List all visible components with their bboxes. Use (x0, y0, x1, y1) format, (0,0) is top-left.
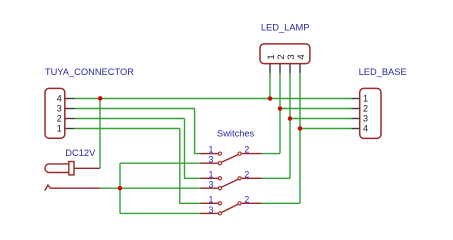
svg-text:TUYA_CONNECTOR: TUYA_CONNECTOR (45, 67, 134, 77)
svg-text:1: 1 (208, 169, 213, 179)
svg-text:LED_LAMP: LED_LAMP (261, 23, 310, 33)
svg-text:2: 2 (57, 113, 62, 123)
svg-text:3: 3 (208, 205, 213, 215)
svg-text:3: 3 (208, 155, 213, 165)
svg-text:3: 3 (363, 113, 368, 123)
svg-text:2: 2 (363, 103, 368, 113)
svg-text:LED_BASE: LED_BASE (359, 67, 407, 77)
svg-text:Switches: Switches (217, 129, 255, 139)
svg-text:1: 1 (208, 145, 213, 155)
svg-text:1: 1 (57, 123, 62, 133)
svg-text:4: 4 (363, 123, 368, 133)
svg-text:4: 4 (57, 93, 62, 103)
svg-text:3: 3 (57, 103, 62, 113)
svg-text:DC12V: DC12V (65, 148, 96, 158)
svg-text:4: 4 (296, 54, 307, 60)
svg-text:2: 2 (244, 169, 249, 179)
svg-text:2: 2 (244, 194, 249, 204)
svg-text:2: 2 (244, 145, 249, 155)
svg-text:1: 1 (208, 194, 213, 204)
svg-text:1: 1 (363, 93, 368, 103)
svg-text:3: 3 (208, 180, 213, 190)
